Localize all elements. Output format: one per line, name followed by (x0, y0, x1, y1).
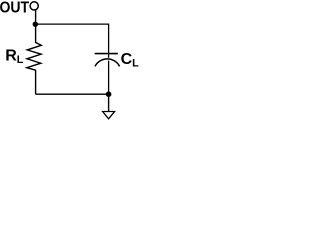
wire from OUT terminal to node A (35, 10, 37, 24)
ground (103, 112, 115, 119)
capacitor C_L top plate (95, 53, 118, 55)
capacitor C_L bottom curved plate (95, 59, 120, 67)
junction node B (106, 91, 112, 97)
resistor R_L (zigzag with leads) (27, 24, 42, 94)
svg-text:RL: RL (5, 48, 24, 66)
wire bottom horizontal from resistor branch to node B (36, 93, 109, 95)
svg-text:OUT: OUT (0, 0, 29, 17)
terminal OUT (open circle) (30, 2, 38, 10)
wire right vertical down to capacitor C_L top (108, 24, 110, 58)
svg-text:CL: CL (121, 51, 139, 69)
wire from node B to ground (108, 94, 110, 111)
junction node A (33, 22, 38, 27)
wire from capacitor bottom to node B (108, 61, 110, 95)
wire top horizontal from node A to capacitor branch (35, 23, 108, 25)
